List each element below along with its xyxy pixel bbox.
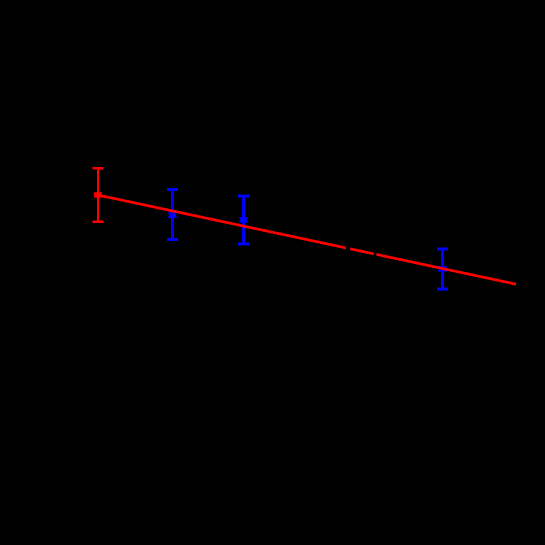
marker point 4 (blue star) [438, 264, 446, 274]
error bar point 4 (blue) x=442.4 [437, 248, 448, 290]
gap in fit line near x=375 [374, 250, 377, 259]
red fit line from (94,194.2) to (516,284.2) [94, 194, 516, 284]
error bar point 2 (blue) x=172.4 [167, 188, 178, 241]
error bar point 1 (red) x=98 [93, 167, 104, 223]
error bar point 3 (blue) x=243.5 [238, 195, 249, 246]
gap in fit line near x=348 [346, 244, 350, 253]
marker point 2 (blue star) [168, 210, 176, 220]
marker point 3 (blue star) [239, 215, 247, 225]
marker point 1 (red star) [94, 191, 102, 200]
